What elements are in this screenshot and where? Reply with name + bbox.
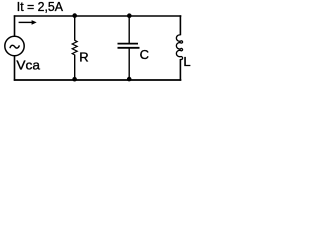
wire left vertical upper (source top to top wire)	[14, 15, 16, 36]
wire bottom horizontal	[14, 79, 182, 81]
wire left vertical lower (source bottom to bottom wire)	[14, 56, 16, 81]
wire C branch upper	[128, 16, 130, 43]
source Vca (AC)	[5, 36, 24, 55]
wire right vertical lower (coil to bottom wire)	[179, 59, 181, 81]
inductor L	[176, 35, 182, 60]
wire R branch lower	[74, 55, 76, 80]
current arrow	[19, 20, 37, 25]
wire top horizontal	[14, 15, 182, 17]
svg-text:R: R	[79, 50, 88, 65]
wire R branch upper	[74, 16, 76, 41]
node top C junction	[127, 13, 132, 18]
capacitor C	[118, 44, 140, 48]
wire C branch lower	[128, 48, 130, 80]
svg-text:It = 2,5A: It = 2,5A	[17, 0, 63, 14]
node top R junction	[72, 13, 77, 18]
svg-text:C: C	[140, 47, 149, 62]
node bottom R junction	[72, 77, 77, 82]
wire right vertical upper (top wire to coil)	[179, 15, 181, 35]
svg-text:L: L	[183, 54, 190, 69]
node bottom C junction	[127, 77, 132, 82]
resistor R	[72, 40, 77, 55]
svg-text:Vca: Vca	[16, 58, 40, 73]
